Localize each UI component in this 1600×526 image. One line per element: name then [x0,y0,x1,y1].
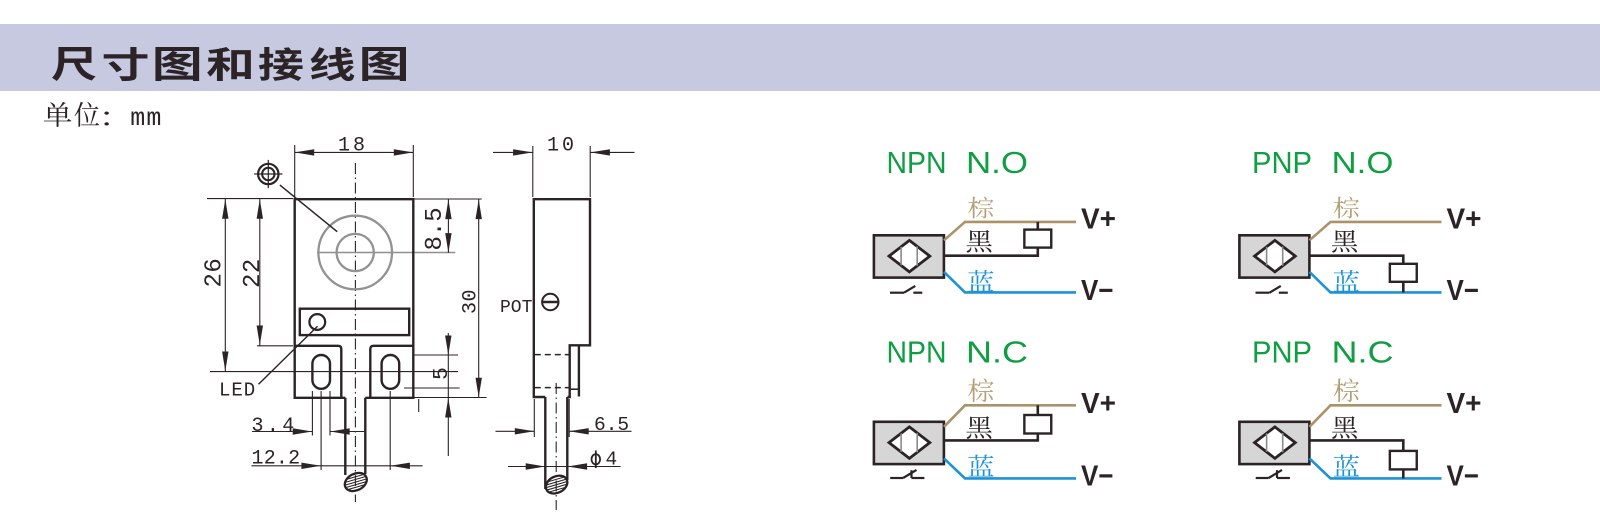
svg-text:V−: V− [1081,461,1114,493]
svg-text:10: 10 [547,135,577,158]
svg-text:4: 4 [606,448,618,470]
svg-text:V−: V− [1447,461,1480,493]
svg-text:V+: V+ [1081,204,1116,236]
svg-text:N.C: N.C [1332,334,1394,369]
svg-text:N.C: N.C [966,334,1028,369]
svg-text:6.5: 6.5 [594,414,629,436]
svg-text:mm: mm [130,104,162,133]
svg-text:30: 30 [459,289,482,314]
svg-text:NPN: NPN [887,145,947,180]
svg-text:18: 18 [338,135,368,158]
svg-text:22: 22 [240,258,267,288]
svg-text:3.4: 3.4 [252,415,298,438]
svg-text:V+: V+ [1447,388,1482,420]
svg-text:PNP: PNP [1252,145,1312,180]
svg-text:N.O: N.O [1332,145,1394,180]
svg-text:LED: LED [219,380,256,402]
svg-text:PNP: PNP [1252,334,1312,369]
svg-text:POT: POT [500,298,533,318]
svg-text:NPN: NPN [887,334,947,369]
svg-text:V−: V− [1447,275,1480,307]
svg-text:V−: V− [1081,275,1114,307]
svg-text:V+: V+ [1447,204,1482,236]
svg-text:12.2: 12.2 [252,448,301,471]
svg-text:V+: V+ [1081,388,1116,420]
svg-text:N.O: N.O [966,145,1028,180]
svg-text:8.5: 8.5 [422,207,449,250]
svg-text:26: 26 [201,258,228,288]
svg-text:5: 5 [430,367,454,380]
